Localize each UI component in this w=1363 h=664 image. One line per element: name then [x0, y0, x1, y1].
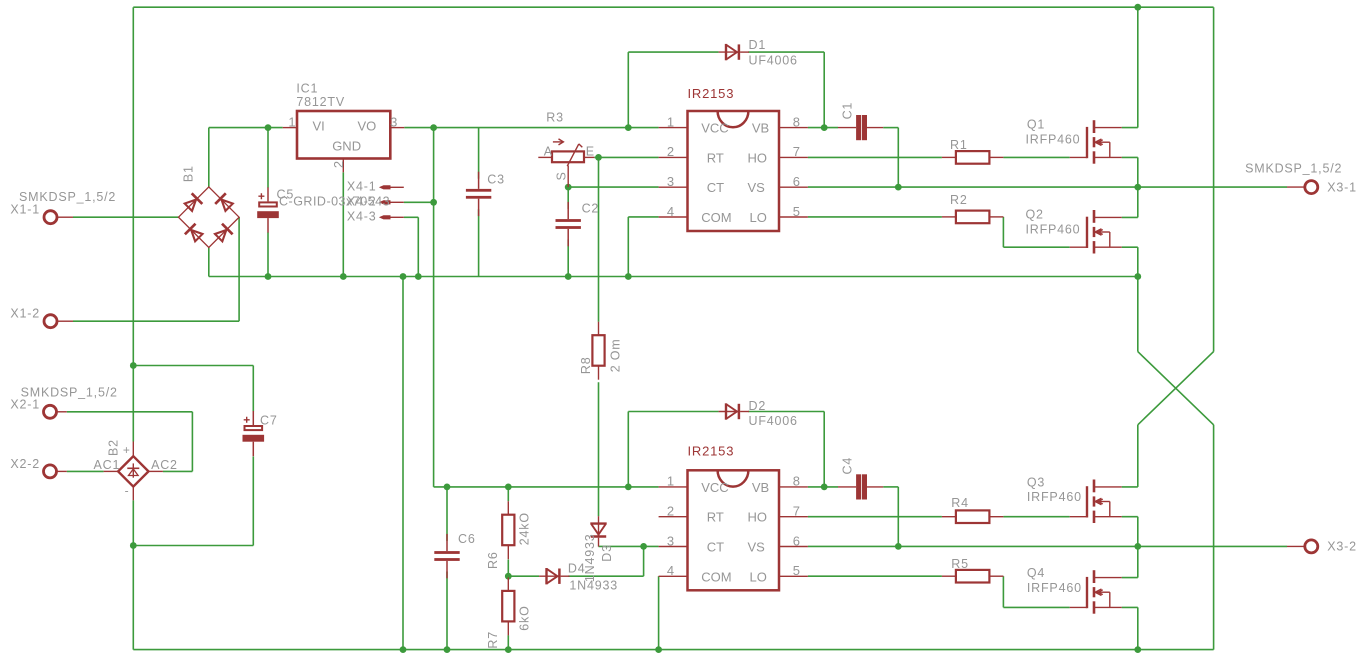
wire C1 to VS node — [883, 127, 898, 129]
svg-text:D4: D4 — [568, 561, 586, 575]
wire X4-3 to mid rail — [417, 217, 419, 276]
svg-text:E: E — [586, 144, 595, 158]
terminal X1-1 — [44, 211, 73, 224]
wire D1 bootstrap loop — [823, 52, 825, 128]
node X4-2 — [430, 199, 437, 206]
svg-text:2: 2 — [331, 161, 346, 168]
wire rails tie — [402, 277, 404, 650]
wire right bus lower — [1213, 425, 1215, 650]
wire B1 AC2 to X1-2 — [73, 320, 239, 322]
wire lower CT to D4 — [568, 575, 643, 577]
wire B1 AC2 to X1-2 — [238, 217, 240, 321]
svg-text:C6: C6 — [458, 532, 476, 546]
wire C3 branches — [478, 209, 480, 276]
wire LO to R2 — [808, 216, 942, 218]
wire RT node down to R8 — [598, 157, 600, 321]
resistor R5 — [942, 570, 1004, 583]
wire D2 bootstrap loop — [748, 411, 824, 413]
wire B1 plus to IC1 VI — [209, 127, 283, 129]
svg-text:R5: R5 — [951, 557, 969, 571]
wire X2-1 to B2 AC2 — [163, 470, 193, 472]
svg-text:UF4006: UF4006 — [749, 53, 798, 67]
node Q2 source / mid rail — [1134, 273, 1141, 280]
wire R6/R7 node to D4 — [508, 575, 539, 577]
svg-text:X4-1: X4-1 — [347, 179, 377, 193]
terminal X1-2 — [44, 315, 73, 328]
node R6 top — [505, 484, 512, 491]
wire C2 branches — [567, 187, 569, 209]
node C5 minus — [265, 273, 272, 280]
wire left bus lower — [132, 500, 134, 649]
svg-text:2 Om: 2 Om — [609, 339, 623, 373]
wire D2 bootstrap loop — [627, 412, 629, 487]
wire C2 branches — [567, 240, 569, 277]
wire 12V to R6 — [507, 487, 509, 501]
wire right bus vertical — [1213, 7, 1215, 351]
svg-text:VO: VO — [358, 118, 377, 133]
wire R7 to bottom rail — [507, 635, 509, 649]
svg-text:VI: VI — [313, 118, 325, 133]
wire phase2 to Q4 drain — [1122, 577, 1138, 579]
transistor Q2 IRFP460 — [1070, 210, 1122, 254]
wire X4-2 — [404, 201, 434, 203]
wire phase node to X3-1 — [898, 186, 1287, 188]
svg-text:-: - — [125, 484, 130, 498]
wire C1 to VS node — [897, 128, 899, 188]
capacitor C6 — [434, 534, 459, 578]
svg-text:SMKDSP_1,5/2: SMKDSP_1,5/2 — [21, 386, 118, 400]
wire phase2 to Q4 drain — [1137, 546, 1139, 577]
node lower VS / C4 — [895, 543, 902, 550]
node lower VB / D2 / C4 — [821, 484, 828, 491]
svg-text:R6: R6 — [486, 551, 500, 569]
bridge rectifier B1 — [179, 187, 240, 248]
terminal X3-1 — [1287, 181, 1318, 194]
svg-text:B1: B1 — [182, 165, 196, 182]
svg-text:IRFP460: IRFP460 — [1026, 223, 1081, 237]
wire Q1 source to phase — [1122, 156, 1138, 158]
node tie bottom — [400, 646, 407, 653]
svg-text:IRFP460: IRFP460 — [1027, 490, 1082, 504]
svg-text:A: A — [544, 144, 553, 158]
wire lower COM to bottom rail — [658, 576, 660, 649]
connector pin X4-1 — [379, 185, 404, 189]
wire Q3 source to phase2 — [1122, 516, 1138, 518]
wire R5 to Q4 gate — [1003, 606, 1069, 608]
node VO column — [430, 124, 437, 131]
wire C4 to lower VS node — [897, 487, 899, 547]
node R6 / R7 / D4 — [505, 573, 512, 580]
svg-text:IR2153: IR2153 — [688, 444, 735, 459]
resistor R7 6kO — [502, 577, 514, 635]
wire CT row — [568, 186, 658, 188]
node R7 bottom — [505, 646, 512, 653]
svg-text:R4: R4 — [951, 496, 969, 510]
wire D3 to lower CT — [599, 545, 659, 547]
node C7 plus — [130, 362, 137, 369]
wire C4 to lower VS node — [883, 486, 898, 488]
terminal X2-1 — [44, 405, 67, 418]
wire R2 to Q2 gate — [1002, 217, 1004, 247]
svg-text:X1-1: X1-1 — [10, 203, 40, 217]
node VS / C1 — [895, 184, 902, 191]
node C7 minus — [130, 542, 137, 549]
svg-text:+: + — [123, 443, 131, 457]
capacitor C2 — [556, 202, 581, 246]
diode D2 UF4006 — [719, 403, 749, 419]
capacitor C1 — [838, 115, 883, 140]
wire X4-3 to mid rail — [404, 216, 419, 218]
svg-text:Q1: Q1 — [1027, 117, 1045, 131]
node C5 / VI — [265, 124, 272, 131]
wire C6 branches — [446, 572, 448, 650]
op-amp driver IC IR2153 upper — [659, 111, 808, 231]
wire IC1 GND down — [342, 172, 344, 276]
wire Q4 source to bottom rail — [1137, 607, 1139, 649]
node top rail / Q1 drain — [1134, 4, 1141, 11]
svg-text:1N4933: 1N4933 — [569, 579, 618, 593]
wire left bus upper — [132, 7, 134, 441]
svg-text:X4-3: X4-3 — [347, 209, 377, 223]
wire D2 bootstrap loop — [628, 411, 718, 413]
wire R1 to Q1 gate — [1003, 156, 1069, 158]
wire Q3 drain — [1122, 486, 1138, 488]
wire X2-1 to B2 AC2 — [191, 412, 193, 472]
voltage regulator IC1 7812TV — [283, 111, 405, 172]
wire R6 to node — [507, 560, 509, 577]
svg-text:S: S — [555, 171, 569, 180]
svg-text:C4: C4 — [841, 457, 855, 475]
wire X2-2 to B2 AC1 — [67, 470, 104, 472]
svg-text:R1: R1 — [950, 138, 968, 152]
transistor Q1 IRFP460 — [1070, 120, 1122, 164]
node D2 anode branch — [625, 484, 632, 491]
wire mid rail down to crossover — [1137, 277, 1139, 352]
svg-text:X3-1: X3-1 — [1327, 180, 1357, 194]
wire HO to R1 — [808, 156, 942, 158]
wire top +bus rail — [133, 6, 1213, 8]
wire upper COM to mid rail — [628, 216, 658, 218]
terminal X2-2 — [44, 465, 67, 478]
op-amp driver IC IR2153 lower — [659, 470, 808, 590]
transistor Q4 IRFP460 — [1070, 570, 1122, 614]
svg-text:X4-2: X4-2 — [347, 194, 377, 208]
node RT / R3 E — [595, 154, 602, 161]
wire C7 minus branch — [133, 545, 253, 547]
electrolytic capacitor C7 — [243, 411, 265, 456]
wire Q3 source to phase2 — [1137, 517, 1139, 547]
node C6 / 12V — [444, 484, 451, 491]
wire R8 to D3 — [598, 382, 600, 516]
node Q4 source / bottom rail — [1134, 646, 1141, 653]
wire C7 plus branch — [252, 366, 254, 412]
svg-text:R7: R7 — [486, 631, 500, 649]
wire C3 branches — [478, 128, 480, 179]
connector pin X4-3 — [379, 215, 404, 219]
wire D1 bootstrap loop — [628, 51, 718, 53]
wire lower VS node — [808, 545, 898, 547]
diode D4 1N4933 — [539, 568, 569, 584]
resistor R2 — [942, 211, 1004, 224]
wire lower LO to R5 — [808, 575, 942, 577]
svg-text:Q4: Q4 — [1027, 566, 1045, 580]
node D1 anode branch — [625, 124, 632, 131]
wire R2 to Q2 gate — [1003, 246, 1069, 248]
wire upper COM to mid rail — [627, 217, 629, 277]
wire crossover diagonal 2 — [1138, 352, 1214, 425]
wire lower VB to C4 — [808, 486, 838, 488]
resistor R8 2 Om — [592, 322, 604, 380]
wire crossover to Q3 drain — [1137, 425, 1139, 487]
svg-text:SMKDSP_1,5/2: SMKDSP_1,5/2 — [1245, 162, 1342, 176]
svg-text:R3: R3 — [546, 111, 564, 125]
wire phase to Q2 drain — [1137, 187, 1139, 217]
node phase / X3-1 — [1134, 184, 1141, 191]
wire R4 to Q3 gate — [1003, 516, 1069, 518]
wire C7 minus branch — [252, 456, 254, 545]
svg-text:D1: D1 — [749, 38, 767, 52]
wire D2 bootstrap loop — [823, 412, 825, 487]
wire phase to Q2 drain — [1122, 216, 1138, 218]
wire Q1 drain to top rail — [1137, 7, 1139, 127]
wire Q4 source to bottom rail — [1122, 606, 1138, 608]
wire crossover diagonal 1 — [1138, 352, 1214, 425]
wire 12V column to lower VCC — [433, 128, 435, 487]
node C2 minus — [565, 273, 572, 280]
svg-text:1: 1 — [288, 114, 295, 129]
wire mid common rail — [209, 276, 1138, 278]
svg-text:X2-2: X2-2 — [10, 457, 40, 471]
wire D1 bootstrap loop — [748, 51, 824, 53]
svg-text:C2: C2 — [582, 202, 600, 216]
node CT / R3 S / C2 — [565, 184, 572, 191]
svg-text:X1-2: X1-2 — [10, 307, 40, 321]
svg-text:7812TV: 7812TV — [296, 95, 345, 109]
wire bottom return rail — [133, 649, 1213, 651]
diode D3 1N4933 — [590, 516, 606, 546]
connector pin X4-2 — [379, 200, 404, 204]
wire C5 branches — [267, 232, 269, 276]
wire D1 bootstrap loop — [627, 52, 629, 128]
svg-text:IRFP460: IRFP460 — [1026, 132, 1081, 146]
electrolytic capacitor C5 — [257, 187, 279, 232]
svg-text:D3: D3 — [600, 544, 614, 562]
svg-text:AC2: AC2 — [151, 458, 178, 472]
node lower COM bottom — [655, 646, 662, 653]
resistor R6 24kO — [502, 501, 514, 559]
svg-text:D2: D2 — [749, 399, 767, 413]
node COM — [625, 273, 632, 280]
svg-text:3: 3 — [390, 114, 397, 129]
wire Q2 source to mid rail — [1122, 246, 1138, 248]
wire Q1 source to phase — [1137, 157, 1139, 187]
wire C6 branches — [446, 487, 448, 541]
node VB / D1 / C1 — [821, 124, 828, 131]
svg-text:B2: B2 — [107, 439, 121, 456]
wire phase2 to X3-2 — [898, 545, 1287, 547]
wire B1 minus down — [208, 248, 210, 277]
wire lower CT to D4 — [643, 546, 645, 576]
wire C5 branches — [267, 128, 269, 188]
node IC1 GND — [340, 273, 347, 280]
svg-text:X3-2: X3-2 — [1327, 540, 1357, 554]
wire C7 plus branch — [133, 365, 253, 367]
svg-text:C1: C1 — [841, 102, 855, 120]
svg-text:SMKDSP_1,5/2: SMKDSP_1,5/2 — [19, 190, 116, 204]
svg-text:IR2153: IR2153 — [688, 86, 735, 101]
node tie top — [400, 273, 407, 280]
svg-text:R8: R8 — [579, 357, 593, 375]
svg-text:IRFP460: IRFP460 — [1027, 581, 1082, 595]
wire Q2 source to mid rail — [1137, 247, 1139, 276]
svg-text:GND: GND — [332, 139, 361, 154]
wire lower HO to R4 — [808, 516, 942, 518]
capacitor C4 — [838, 474, 883, 499]
transistor Q3 IRFP460 — [1070, 480, 1122, 524]
svg-text:C7: C7 — [260, 414, 278, 428]
wire X2-1 to B2 AC2 — [67, 411, 193, 413]
svg-text:Q3: Q3 — [1027, 475, 1045, 489]
wire VS node — [808, 186, 898, 188]
svg-text:UF4006: UF4006 — [749, 414, 798, 428]
svg-text:24kO: 24kO — [517, 512, 531, 545]
node lower CT / D3 — [640, 543, 647, 550]
capacitor C3 — [466, 172, 491, 216]
node phase2 / X3-2 — [1134, 543, 1141, 550]
wire R3 wiper-E to RT — [594, 156, 658, 158]
svg-text:6kO: 6kO — [517, 605, 531, 630]
resistor R4 — [942, 510, 1004, 523]
resistor R1 — [942, 151, 1004, 164]
svg-text:Q2: Q2 — [1026, 208, 1044, 222]
wire VO 12V to IR2153 VCC — [404, 127, 658, 129]
svg-text:C3: C3 — [487, 173, 505, 187]
bridge rectifier B2 — [104, 442, 163, 501]
node C6 bottom — [444, 646, 451, 653]
wire X1-1 to B1 AC — [73, 216, 179, 218]
wire Q1 drain to top rail — [1122, 127, 1138, 129]
trimmer potentiometer R3 — [538, 139, 594, 187]
node X4-3 — [415, 273, 422, 280]
diode D1 UF4006 — [719, 44, 749, 60]
svg-text:AC1: AC1 — [94, 458, 121, 472]
wire 12V column to lower VCC — [434, 486, 659, 488]
wire B1 plus to IC1 VI — [208, 128, 210, 187]
terminal X3-2 — [1287, 540, 1318, 553]
svg-text:R2: R2 — [950, 193, 968, 207]
wire VB to C1 — [808, 127, 838, 129]
wire R5 to Q4 gate — [1002, 576, 1004, 607]
svg-text:IC1: IC1 — [296, 81, 318, 95]
